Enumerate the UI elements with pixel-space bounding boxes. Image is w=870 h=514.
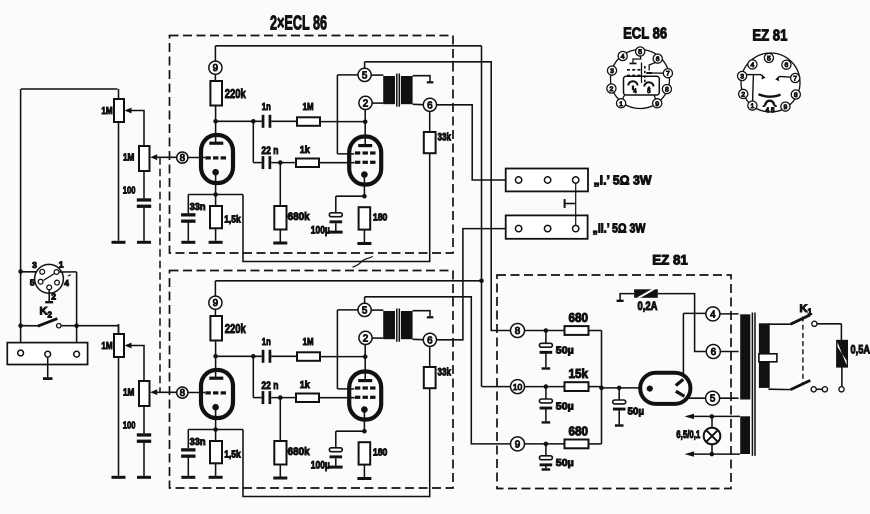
svg-text:0,2A: 0,2A	[638, 301, 658, 313]
svg-text:8: 8	[180, 153, 186, 164]
svg-text:EZ 81: EZ 81	[652, 253, 688, 268]
svg-text:5: 5	[362, 70, 368, 81]
svg-text:2: 2	[741, 91, 745, 98]
svg-text:50µ: 50µ	[556, 400, 574, 412]
svg-text:5: 5	[767, 55, 771, 62]
svg-text:„I.’ 5Ω 3W: „I.’ 5Ω 3W	[594, 173, 653, 188]
svg-text:1M: 1M	[101, 106, 112, 117]
svg-text:4: 4	[64, 278, 69, 288]
svg-text:2: 2	[48, 311, 53, 320]
svg-text:4: 4	[710, 309, 716, 320]
svg-text:1: 1	[619, 101, 623, 108]
svg-text:4 5: 4 5	[766, 106, 775, 115]
svg-text:5: 5	[710, 394, 716, 405]
svg-text:1M: 1M	[303, 102, 314, 113]
svg-text:8: 8	[794, 92, 798, 99]
svg-text:5: 5	[638, 49, 642, 56]
svg-text:50µ: 50µ	[628, 405, 645, 417]
svg-text:3: 3	[740, 74, 744, 81]
svg-text:2×ECL 86: 2×ECL 86	[270, 13, 327, 35]
svg-text:1: 1	[808, 308, 813, 317]
svg-text:5: 5	[30, 278, 35, 288]
svg-text:3: 3	[32, 260, 37, 270]
svg-text:100µ: 100µ	[311, 224, 330, 236]
svg-text:3: 3	[610, 68, 614, 75]
svg-text:33k: 33k	[438, 132, 452, 144]
svg-text:1: 1	[751, 103, 755, 110]
svg-text:4: 4	[621, 54, 625, 61]
svg-text:„II.’ 5Ω 3W: „II.’ 5Ω 3W	[593, 221, 647, 236]
svg-text:680k: 680k	[288, 211, 311, 223]
svg-text:K: K	[40, 306, 48, 318]
svg-text:2: 2	[51, 291, 56, 301]
svg-text:2: 2	[610, 86, 614, 93]
svg-text:50µ: 50µ	[556, 457, 574, 469]
svg-text:50µ: 50µ	[556, 345, 574, 357]
svg-text:6: 6	[711, 347, 717, 358]
svg-text:22 n: 22 n	[261, 145, 278, 157]
svg-text:EZ 81: EZ 81	[752, 27, 787, 44]
svg-text:1: 1	[59, 259, 64, 269]
svg-text:K: K	[800, 303, 808, 315]
svg-text:680: 680	[569, 311, 589, 325]
svg-text:7: 7	[793, 76, 797, 83]
svg-text:1k: 1k	[300, 145, 310, 156]
svg-text:1,5k: 1,5k	[224, 214, 241, 225]
svg-text:680: 680	[569, 424, 589, 438]
svg-text:9: 9	[515, 439, 520, 450]
svg-text:6: 6	[656, 56, 660, 63]
svg-text:10: 10	[513, 382, 523, 392]
svg-text:100: 100	[123, 184, 136, 196]
svg-text:6,5/0,1: 6,5/0,1	[676, 429, 700, 441]
svg-text:1n: 1n	[262, 102, 271, 113]
svg-text:2: 2	[363, 98, 368, 109]
svg-text:ECL 86: ECL 86	[623, 26, 667, 43]
svg-text:9: 9	[213, 63, 218, 74]
svg-text:33n: 33n	[190, 202, 206, 213]
svg-text:7: 7	[666, 71, 670, 78]
svg-text:1M: 1M	[123, 153, 134, 164]
svg-text:0,5A: 0,5A	[851, 345, 870, 357]
svg-text:180: 180	[373, 212, 388, 224]
svg-text:9: 9	[655, 101, 659, 108]
svg-text:6: 6	[427, 100, 433, 111]
svg-text:9: 9	[784, 104, 788, 111]
svg-text:4: 4	[751, 62, 755, 69]
svg-text:8: 8	[515, 326, 521, 337]
svg-text:6: 6	[785, 62, 789, 69]
svg-text:8: 8	[665, 87, 669, 94]
svg-text:220k: 220k	[225, 87, 246, 101]
svg-text:15k: 15k	[569, 367, 589, 381]
